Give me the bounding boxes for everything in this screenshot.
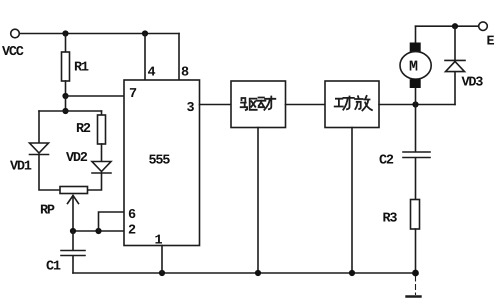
junction pin7 node bbox=[62, 93, 68, 99]
wire ground rail bbox=[73, 272, 416, 274]
label gongfang (power amp) hand-drawn glyphs bbox=[335, 96, 372, 110]
label VD2 bbox=[66, 152, 87, 161]
motor M bbox=[400, 26, 431, 104]
junction power-amp drop on rail bbox=[349, 270, 355, 276]
wire top motor rail bbox=[416, 25, 479, 27]
wire pin2 horizontal bbox=[73, 230, 124, 232]
label 555 bbox=[149, 155, 170, 164]
resistor R1 bbox=[62, 34, 70, 97]
junction drive drop on rail bbox=[255, 270, 261, 276]
junction branch node bbox=[62, 108, 68, 114]
ground bbox=[407, 276, 421, 297]
op-amp U1 555 timer body bbox=[124, 80, 200, 246]
junction pin6 node bbox=[95, 228, 101, 234]
wire branch horizontal bbox=[39, 110, 102, 112]
block drive (qudong) bbox=[231, 81, 286, 128]
pin 3 bbox=[187, 102, 194, 111]
block power-amp (gongfang) bbox=[325, 81, 379, 128]
diode VD1 bbox=[30, 143, 49, 155]
junction rail right end bbox=[412, 270, 419, 277]
wire R2 branch upper bbox=[101, 111, 103, 115]
pin 2 bbox=[129, 224, 136, 233]
capacitor C1 bbox=[61, 231, 85, 273]
pin 7 bbox=[130, 88, 136, 97]
label qudong (drive) hand-drawn glyphs bbox=[241, 97, 276, 111]
wire VD2 branch lower bbox=[88, 173, 102, 190]
junction at R1 top bbox=[62, 30, 68, 36]
junction at pin4 drop bbox=[142, 30, 148, 36]
wire drive block to ground rail bbox=[257, 128, 259, 274]
junction VD3 top bbox=[452, 23, 458, 29]
terminal VCC bbox=[11, 29, 20, 38]
wire power-amp to motor node bbox=[379, 104, 455, 106]
label M bbox=[410, 61, 418, 71]
junction wiper-C1 node bbox=[70, 228, 76, 234]
resistor R2 bbox=[98, 115, 106, 144]
terminal E bbox=[479, 22, 488, 31]
diode VD2 bbox=[92, 162, 111, 174]
label VCC bbox=[2, 46, 24, 55]
diode VD3 bbox=[445, 26, 465, 104]
label VD1 bbox=[10, 161, 31, 170]
pin 4 bbox=[148, 67, 155, 76]
label C1 bbox=[47, 260, 61, 269]
wire VCC rail bbox=[20, 33, 180, 35]
wire VD1 branch upper bbox=[38, 111, 40, 143]
junction pin1 on rail bbox=[159, 270, 165, 276]
wire VD1 branch lower bbox=[39, 155, 60, 191]
label RP bbox=[41, 205, 55, 214]
resistor R3 bbox=[411, 200, 420, 274]
wire pin7 bbox=[66, 95, 125, 97]
wire pin3 to drive block bbox=[200, 104, 232, 106]
pin 8 bbox=[182, 66, 189, 75]
label VD3 bbox=[462, 76, 483, 85]
capacitor C2 bbox=[403, 105, 430, 200]
wire pin6 bbox=[99, 212, 125, 231]
pin 6 bbox=[129, 209, 136, 218]
label E bbox=[487, 36, 494, 45]
pin 1 bbox=[155, 235, 162, 244]
label R2 bbox=[77, 123, 90, 132]
wire pin1 bbox=[161, 246, 163, 274]
label R3 bbox=[383, 212, 396, 221]
wire power-amp block to ground rail bbox=[351, 128, 353, 274]
wire R1 to branch node bbox=[65, 96, 67, 111]
wire pin8 drop bbox=[178, 34, 180, 81]
potentiometer RP bbox=[60, 187, 88, 194]
label C2 bbox=[380, 154, 394, 163]
label R1 bbox=[75, 62, 89, 71]
wire drive to power-amp block bbox=[286, 104, 326, 106]
wire pin4 drop bbox=[144, 34, 146, 81]
junction motor bottom node bbox=[412, 101, 418, 107]
wire R2 to VD2 bbox=[101, 144, 103, 162]
wiper arrow of RP bbox=[68, 196, 79, 232]
